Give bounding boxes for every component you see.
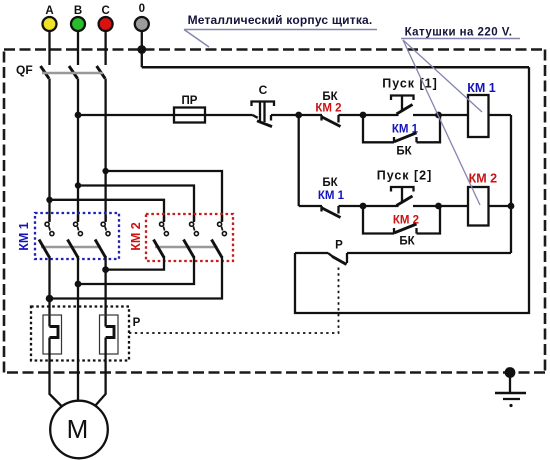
- svg-text:Металлический корпус щитка.: Металлический корпус щитка.: [188, 13, 373, 27]
- wire phase C vertical: [104, 79, 106, 222]
- node phase B crossover: [75, 182, 81, 188]
- contact KM1 pole C: [95, 215, 110, 327]
- svg-text:А: А: [45, 5, 53, 17]
- wire phase A to motor: [50, 338, 63, 407]
- node row1 right junction: [435, 112, 442, 119]
- svg-text:КМ 1: КМ 1: [318, 190, 345, 202]
- node phase C crossover: [102, 168, 108, 174]
- linkage bar KM1: [41, 246, 101, 249]
- svg-text:КМ 2: КМ 2: [469, 172, 498, 186]
- svg-text:С: С: [259, 83, 268, 97]
- node phase B fuse tap: [75, 112, 82, 119]
- svg-text:КМ 2: КМ 2: [315, 103, 341, 115]
- svg-text:БК: БК: [396, 146, 412, 158]
- wire fuse to stop button: [205, 114, 253, 116]
- wire coil KM1 to right rail: [489, 114, 512, 116]
- contact NO KM2 aux branch: [363, 206, 440, 234]
- contact NC BK/KM1: [321, 206, 341, 218]
- wire crossover B to KM2 pole2: [78, 186, 194, 222]
- node row1 left junction: [295, 112, 302, 119]
- svg-text:КМ 1: КМ 1: [17, 222, 31, 251]
- annotation arrow to coil KM2: [403, 40, 480, 205]
- svg-text:Пуск [1]: Пуск [1]: [382, 77, 438, 91]
- contact KM2 pole 1: [154, 215, 169, 258]
- box KM1 dashed blue: [35, 213, 119, 259]
- annotation underline coils: [401, 38, 520, 40]
- contact KM2 pole 2: [184, 215, 199, 258]
- wire return loop: [295, 67, 529, 313]
- ground symbol: [495, 373, 526, 400]
- wire crossover C to KM2 pole3: [106, 171, 222, 221]
- breaker QF pole C blade: [97, 66, 106, 79]
- wire row2 start: [299, 205, 322, 207]
- wire KM2 pole1 out to phase C: [106, 256, 164, 270]
- node pole2 to B: [75, 281, 82, 288]
- annotation arrow metal case: [184, 30, 209, 48]
- wire neutral top: [142, 66, 529, 69]
- svg-text:Пуск [2]: Пуск [2]: [377, 169, 433, 183]
- wire phase A vertical: [48, 79, 50, 222]
- svg-text:С: С: [101, 5, 109, 17]
- wire control row1 left: [78, 114, 174, 116]
- wire neutral 0 drop: [141, 31, 143, 67]
- node row2 right junction: [435, 203, 442, 210]
- annotation arrow to coil KM1: [403, 40, 482, 112]
- linkage bar KM2: [155, 246, 218, 249]
- annotation underline metal case: [184, 29, 377, 31]
- node neutral on panel border: [137, 45, 146, 54]
- wire KM2 pole2 out to phase B: [78, 256, 194, 284]
- heater element phase C: [100, 315, 119, 354]
- svg-text:БК: БК: [322, 177, 338, 189]
- breaker QF pole B blade: [69, 66, 78, 79]
- motor M: [50, 401, 108, 459]
- node row1 mid junction: [360, 112, 367, 119]
- node pole3 to A: [46, 295, 54, 303]
- svg-text:БК: БК: [399, 236, 415, 248]
- indicator lamp C: [99, 5, 113, 31]
- wire to coil KM1: [439, 114, 469, 116]
- contact KM2 pole 3: [212, 215, 227, 258]
- wire phase C drop: [104, 31, 106, 65]
- node right rail row2: [508, 203, 515, 210]
- node ground on border: [505, 367, 516, 378]
- contact NC BK/KM2: [321, 115, 341, 127]
- contact NO KM1 aux branch: [363, 115, 440, 142]
- svg-text:КМ 1: КМ 1: [467, 81, 496, 95]
- wire rail down to row2: [298, 115, 300, 206]
- heater element phase A: [43, 315, 62, 354]
- node phase A crossover: [46, 197, 52, 203]
- fuse PR: [174, 108, 205, 123]
- wire phase B drop: [77, 31, 79, 65]
- pushbutton Pusk1 (start, NO): [363, 96, 439, 116]
- coil KM1: [468, 95, 489, 137]
- breaker QF pole A blade: [41, 66, 50, 79]
- svg-text:0: 0: [139, 3, 145, 15]
- svg-text:БК: БК: [322, 91, 338, 103]
- wire phase C to motor: [95, 338, 106, 407]
- coil KM2: [468, 187, 489, 226]
- svg-text:QF: QF: [16, 63, 33, 77]
- dotted link P heater to P contact: [129, 266, 339, 334]
- wire right rail row1-row2: [510, 115, 512, 253]
- box KM2 dashed red: [146, 214, 233, 261]
- svg-text:Р: Р: [133, 317, 141, 329]
- box P thermal dotted: [31, 307, 129, 361]
- ground dot: [509, 404, 512, 407]
- indicator lamp 0: [135, 3, 149, 31]
- svg-text:Р: Р: [335, 240, 343, 252]
- wire KM2 pole3 out to phase A: [50, 256, 223, 299]
- node pole1 to C: [102, 266, 109, 273]
- node row2 mid junction: [360, 203, 367, 210]
- wire to node row2: [339, 205, 364, 207]
- pushbutton C (stop, NC): [252, 102, 275, 127]
- indicator lamp A: [43, 5, 57, 31]
- wire to coil KM2: [439, 205, 469, 207]
- wire phase A drop: [48, 31, 50, 65]
- svg-text:ПР: ПР: [182, 95, 198, 107]
- pushbutton Pusk2 (start, NO): [363, 187, 439, 206]
- contact KM1 pole A: [39, 215, 54, 327]
- wire stop button to node: [271, 114, 322, 116]
- indicator lamp B: [71, 5, 85, 31]
- wire to node2 row1: [339, 114, 364, 116]
- wire crossover A to KM2 pole1: [50, 200, 165, 221]
- svg-text:М: М: [67, 414, 89, 444]
- svg-text:Катушки на 220 V.: Катушки на 220 V.: [405, 27, 513, 39]
- panel dashed border: [4, 50, 545, 373]
- svg-text:КМ 2: КМ 2: [129, 222, 143, 251]
- wire coil KM2 to right rail: [489, 205, 512, 207]
- breaker QF linkage bar: [42, 72, 103, 75]
- wire phase B vertical: [77, 79, 79, 222]
- contact NC P thermal: [295, 253, 511, 265]
- svg-text:В: В: [74, 5, 82, 17]
- contact KM1 pole B: [68, 215, 83, 401]
